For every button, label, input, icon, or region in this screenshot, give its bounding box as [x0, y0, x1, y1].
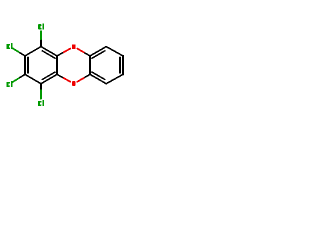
wire bond C4a-C4 (left ring bottom-right edge, double main line)	[41, 74, 57, 83]
wire bond C3-C2 (left ring left edge, double main line)	[24, 56, 26, 75]
wire bond C1-Cl1 green half near Cl1	[40, 31, 42, 39]
wire bond C6-C7 (right ring top-right edge)	[106, 47, 123, 56]
wire bond C9a-O5 black half	[57, 52, 64, 56]
wire bond C9-C10a (right ring bottom-left edge, double main line)	[90, 74, 106, 83]
wire bond C7-C8 inner double line	[119, 58, 121, 73]
wire bond C4-C3 (left ring bottom-left edge)	[25, 74, 41, 83]
wire bond C10a-C5a fusion bond (right)	[89, 56, 91, 75]
wire bond C4a-O10 red half near O10	[64, 78, 71, 82]
wire bond C3-Cl3 green half near Cl3	[12, 78, 18, 82]
wire bond C5a-C6 inner double line	[92, 51, 105, 58]
wire bond C2-C1 (left ring top-left edge)	[25, 47, 41, 56]
wire bond C1-C9a inner double line	[42, 51, 55, 58]
wire bond C2-Cl2 black half	[19, 52, 25, 56]
atom label Cl3 (lower-left chlorine)	[6, 81, 12, 87]
wire bond C5a-O5 black half	[84, 52, 90, 56]
atom label O10 (bottom oxygen)	[72, 81, 76, 86]
wire bond C5a-O5 red half near O5	[77, 49, 83, 53]
wire bond C10a-O10 red half near O10	[77, 78, 83, 82]
wire bond C9a-O5 red half near O5	[64, 49, 71, 53]
wire bond C9-C10a inner double line	[92, 72, 105, 79]
wire bond C4a-O10 black half	[57, 74, 64, 78]
atom label Cl4 (bottom chlorine)	[38, 100, 44, 106]
atom label Cl1 (top chlorine)	[38, 24, 44, 30]
atom label O5 (top oxygen)	[72, 45, 76, 50]
wire bond C3-C2 inner double line	[27, 58, 29, 73]
wire bond C7-C8 (right ring right edge, double main line)	[122, 56, 124, 75]
wire bond C4-Cl4 green half near Cl4	[40, 90, 42, 98]
wire bond C9a-C4a fusion bond (left)	[56, 56, 58, 75]
wire bond C4-Cl4 black half	[40, 84, 42, 91]
wire bond C5a-C6 (right ring top-left edge, double main line)	[90, 47, 106, 56]
wire bond C3-Cl3 black half	[19, 74, 25, 78]
wire bond C2-Cl2 green half near Cl2	[12, 48, 18, 52]
wire bond C10a-O10 black half	[84, 74, 90, 78]
wire bond C1-Cl1 black half	[40, 39, 42, 47]
wire bond C1-C9a (left ring top-right edge, double main line)	[41, 47, 57, 56]
wire bond C8-C9 (right ring bottom-right edge)	[106, 74, 123, 83]
wire bond C4a-C4 inner double line	[42, 72, 55, 79]
atom label Cl2 (upper-left chlorine)	[7, 43, 13, 49]
